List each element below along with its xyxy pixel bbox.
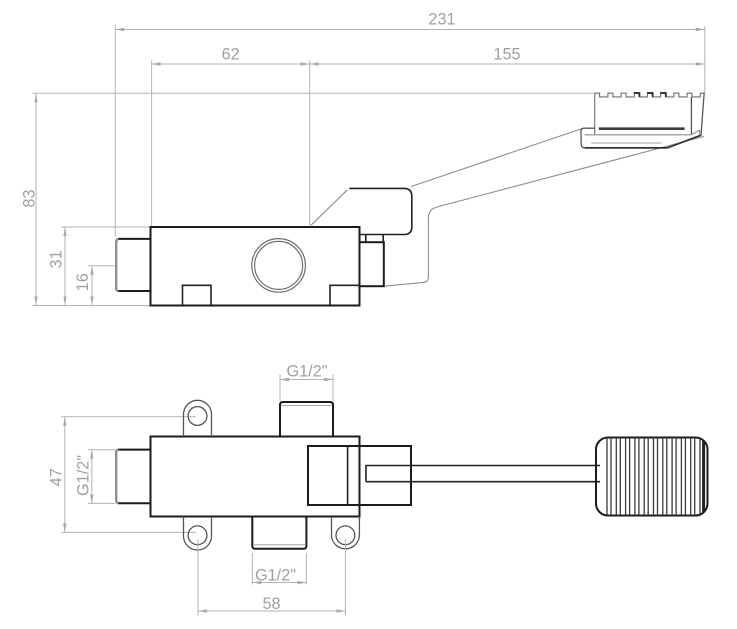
dim G1/2 bottom: extension lines	[251, 553, 253, 585]
dim G1/2 top: extension lines	[279, 375, 281, 402]
pedal base plate outline	[581, 128, 595, 148]
dim G1/2 bottom line	[252, 582, 306, 584]
lever arm lower edge with bend	[385, 136, 705, 286]
svg-text:47: 47	[48, 468, 66, 486]
top port chamfer	[282, 405, 332, 407]
dim 62/155 shared extension line	[309, 61, 311, 226]
pivot boss (side view)	[349, 188, 412, 234]
bottom port chamfer	[254, 544, 305, 546]
dim 47 extension bottom	[61, 531, 196, 533]
svg-text:G1/2": G1/2"	[255, 566, 296, 584]
dim G1/2 top line	[280, 379, 333, 381]
pedal base plate highlight	[591, 142, 662, 144]
dim 16 extension line	[88, 265, 116, 267]
dim 231 extension line right	[704, 26, 706, 93]
pedal base plate right tip	[691, 130, 699, 136]
dim 31 extension line top	[61, 226, 151, 228]
top mounting ear (bottom view)	[184, 400, 212, 436]
svg-text:62: 62	[222, 46, 240, 64]
pedal ribs	[607, 430, 704, 520]
lever bar (bottom view)	[366, 466, 600, 482]
top port G1/2 (bottom view)	[280, 402, 333, 437]
pedal pad dark teeth	[634, 93, 666, 97]
left mounting foot (side view)	[183, 285, 212, 305]
pedal pad outer right edge	[701, 93, 704, 137]
bottom left ear hole	[188, 526, 207, 545]
svg-text:G1/2": G1/2"	[75, 455, 93, 496]
dim 231 extension line left	[114, 25, 116, 237]
dim 83/31/16 extension line bottom	[33, 305, 151, 307]
svg-text:155: 155	[493, 46, 520, 64]
outlet port right (side view)	[360, 242, 384, 286]
dim 62 extension line left	[151, 61, 153, 227]
arm front diagonal to boss	[311, 190, 348, 226]
pedal base plate front top edge	[585, 134, 692, 136]
right mounting foot (side view)	[330, 285, 360, 305]
pedal base plate bottom edge	[585, 147, 667, 149]
cap circle outer (side view)	[252, 239, 306, 293]
svg-text:83: 83	[21, 189, 39, 207]
boss step right edge	[382, 235, 384, 243]
boss step left edge	[365, 235, 367, 243]
dim 47 line	[64, 417, 66, 533]
dim 58 line	[198, 610, 345, 612]
pedal pad bottom dark bar	[599, 127, 685, 130]
svg-text:31: 31	[47, 250, 65, 268]
inlet port (bottom view)	[118, 450, 151, 504]
svg-text:231: 231	[428, 11, 455, 29]
valve body (side view)	[151, 227, 360, 306]
inlet port thread edge (bottom view)	[116, 450, 118, 503]
dim 16 line	[91, 266, 93, 306]
dim 83 extension line top	[33, 92, 594, 94]
dim 58 extension lines	[197, 539, 199, 616]
cap circle inner (side view)	[255, 241, 303, 289]
pedal right dark band	[702, 430, 705, 520]
pedal base plate right slant edge	[667, 135, 701, 148]
dim 31 line	[64, 227, 66, 306]
valve body (bottom view)	[151, 437, 360, 517]
dim 62/155 line	[152, 63, 705, 65]
pivot boss (bottom view)	[308, 446, 411, 505]
svg-text:G1/2": G1/2"	[286, 362, 327, 380]
pedal pad inner right edge	[690, 97, 692, 135]
dim 83 line	[35, 93, 37, 305]
boss divider line	[347, 446, 349, 505]
svg-text:58: 58	[262, 595, 280, 613]
dim G1/2 left line	[91, 450, 93, 504]
dim G1/2 left: extension lines	[88, 449, 115, 451]
inlet port thread edge (side view)	[116, 239, 118, 291]
pedal pad crenellated top (side view)	[595, 93, 705, 135]
lever arm top edge	[411, 128, 583, 186]
svg-text:16: 16	[74, 273, 92, 291]
inlet port (side view)	[118, 239, 152, 291]
dim 231 line	[115, 29, 705, 31]
bottom left mounting ear	[184, 517, 212, 551]
bottom right ear hole	[336, 526, 355, 545]
top ear hole	[188, 407, 207, 426]
dim 47 extension top	[61, 416, 196, 418]
bottom port G1/2 (bottom view)	[252, 517, 306, 549]
bottom right mounting ear	[332, 517, 360, 549]
